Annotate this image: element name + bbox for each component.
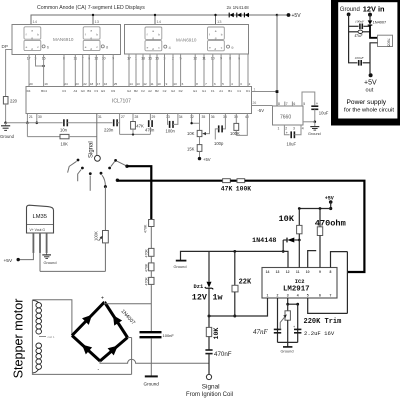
wire: rail B to signal line — [69, 136, 97, 138]
svg-text:100K: 100K — [94, 231, 99, 241]
wire: +5V stub — [330, 202, 332, 209]
ICL top pin numbers — [29, 82, 250, 86]
svg-text:14: 14 — [266, 270, 270, 274]
wire: integrator bottom rail — [120, 133, 151, 135]
svg-text:2: 2 — [277, 294, 279, 298]
svg-text:D2: D2 — [179, 89, 183, 93]
svg-text:Ground: Ground — [144, 382, 160, 387]
svg-text:From Ignition Coil: From Ignition Coil — [186, 392, 233, 398]
svg-text:Dz1: Dz1 — [194, 284, 204, 290]
node: V+ branch dot — [276, 14, 279, 17]
ICL top pin segment labels — [27, 89, 251, 93]
node: +5V terminal — [287, 13, 291, 17]
digit1 decimal point marker 6 — [42, 45, 50, 50]
svg-text:Power supply: Power supply — [347, 99, 387, 106]
svg-text:100K: 100K — [236, 186, 252, 193]
svg-text:10K: 10K — [279, 214, 295, 224]
wire: 220n to pin27 drop — [117, 122, 120, 124]
node: pin30 rail dot — [36, 122, 39, 125]
wire: 22K top — [234, 251, 236, 285]
wire: thick battery-volts line to 47K — [117, 180, 222, 182]
svg-text:4: 4 — [302, 126, 304, 130]
wire: pin5 jog to tach line — [308, 298, 348, 313]
svg-text:+: + — [101, 296, 104, 302]
svg-text:100nF: 100nF — [355, 20, 365, 24]
node: supply ground terminal — [347, 13, 351, 17]
wire: 22K bottom to signal rail — [234, 292, 236, 316]
svg-text:12: 12 — [143, 82, 147, 86]
svg-text:470K: 470K — [145, 249, 149, 258]
node: pin21 rail dot — [26, 122, 29, 125]
svg-text:28: 28 — [135, 115, 139, 119]
svg-text:coil 1: coil 1 — [48, 335, 55, 339]
svg-text:10: 10 — [102, 56, 106, 60]
diode D1 on bus — [229, 13, 234, 18]
svg-text:B3: B3 — [87, 89, 91, 93]
wire: 15K to +5V — [199, 151, 201, 157]
digit3 decimal point marker 4 — [164, 45, 172, 50]
svg-text:G1: G1 — [202, 89, 206, 93]
svg-text:7: 7 — [286, 102, 288, 106]
svg-text:10: 10 — [157, 82, 161, 86]
wire: coil top to bridge AC1 — [32, 300, 72, 336]
svg-text:18: 18 — [90, 82, 94, 86]
wire: 470ohm to pin9 — [319, 236, 321, 268]
node: bus junction dot 2 — [154, 14, 156, 16]
svg-text:27: 27 — [121, 115, 125, 119]
wire: chain gaps — [150, 256, 152, 277]
ICL bottom pin numbers — [29, 115, 249, 119]
resistor 10K (pullup) — [298, 209, 300, 226]
svg-text:10K: 10K — [213, 328, 220, 340]
node: diode junction — [298, 239, 301, 242]
wire: analog ground rail A — [6, 122, 63, 124]
wire: display2 anode pin 13 riser — [215, 15, 217, 25]
input terminal circle — [206, 374, 211, 379]
svg-text:B1: B1 — [228, 89, 232, 93]
ground symbol (LM35) — [42, 255, 51, 259]
wire: ICL pin27 vertical — [119, 114, 121, 135]
wires: module1 segment lines to ICL — [64, 55, 113, 87]
power supply frame — [331, 0, 400, 126]
svg-text:36: 36 — [211, 115, 215, 119]
svg-text:3: 3 — [287, 294, 289, 298]
diode 1N4148 — [286, 238, 288, 243]
svg-text:A3: A3 — [73, 89, 77, 93]
wire: LM35 V+ leg to +5V — [32, 233, 34, 253]
wire: coil bottom to lower rail — [32, 373, 131, 376]
svg-text:22K: 22K — [239, 279, 252, 287]
resistor 15K — [199, 137, 201, 145]
svg-text:23: 23 — [75, 82, 79, 86]
svg-text:2: 2 — [285, 126, 287, 130]
wire: display1 anode pin 13 riser — [92, 15, 94, 25]
regulator 7805 — [378, 35, 393, 46]
capacitor 10uF (pump) — [291, 131, 294, 138]
svg-text:F2: F2 — [141, 89, 145, 93]
trimpot wiper arrow — [280, 316, 285, 322]
svg-text:5: 5 — [307, 294, 309, 298]
diode 1N4007 (supply) — [369, 15, 371, 21]
wire: module1 pin3 jog — [36, 55, 44, 67]
resistor 220 — [3, 97, 8, 105]
svg-text:35: 35 — [202, 115, 206, 119]
svg-text:11: 11 — [296, 270, 300, 274]
wire: 12V to regulator — [370, 25, 378, 38]
svg-text:13: 13 — [136, 82, 140, 86]
module2 bottom pin numbers — [127, 56, 240, 60]
svg-text:13: 13 — [217, 19, 222, 24]
svg-text:ICL7107: ICL7107 — [112, 99, 131, 105]
resistor 22K — [232, 285, 238, 292]
sensor LM35 package — [27, 205, 54, 233]
wire: 7660 to ground node — [303, 121, 315, 123]
svg-text:220: 220 — [10, 99, 18, 104]
svg-text:25: 25 — [114, 82, 118, 86]
svg-text:12V: 12V — [192, 293, 208, 303]
svg-text:Stepper motor: Stepper motor — [12, 299, 26, 379]
wire: pin10 jog to pin9 line — [308, 251, 317, 268]
ground symbol (7660) — [310, 122, 319, 130]
wire: chain down to filter cap — [150, 284, 152, 331]
digit4 decimal point marker 9 — [227, 45, 235, 50]
wire: ICL pin31 signal line — [96, 114, 98, 156]
selector contact D (to 100K pot) — [100, 172, 107, 188]
capacitor 100p — [222, 114, 225, 129]
svg-text:30: 30 — [38, 115, 42, 119]
wire: 470nF to input terminal — [208, 354, 210, 375]
capacitor 220n — [114, 119, 117, 126]
svg-text:2.2uF 16V: 2.2uF 16V — [304, 330, 335, 337]
svg-text:D4: D4 — [27, 89, 31, 93]
resistor 470K fourth — [149, 277, 154, 284]
svg-text:8: 8 — [330, 270, 332, 274]
node: 22K junction — [233, 250, 236, 253]
selector contact A — [68, 159, 80, 173]
wire: ICL pin26 -5V stub — [252, 105, 273, 107]
svg-text:12: 12 — [286, 270, 290, 274]
svg-text:14: 14 — [129, 82, 133, 86]
svg-text:IC2: IC2 — [295, 279, 305, 285]
svg-text:1: 1 — [254, 88, 256, 92]
svg-text:47uF: 47uF — [355, 34, 364, 38]
wire: ICL pin21 stub — [26, 114, 28, 123]
svg-text:470K: 470K — [145, 263, 149, 272]
svg-text:1N4007: 1N4007 — [373, 20, 387, 25]
svg-text:22: 22 — [83, 82, 87, 86]
svg-text:MAN6910: MAN6910 — [53, 37, 74, 42]
svg-text:24: 24 — [64, 82, 68, 86]
svg-text:Signal: Signal — [202, 383, 220, 390]
wire: bridge AC2 drop — [128, 337, 132, 339]
selector contact C — [89, 172, 92, 191]
svg-text:Ground: Ground — [281, 349, 294, 354]
svg-text:Ground: Ground — [0, 134, 15, 139]
wire: module1 pin15 to ICL pin19 — [43, 55, 45, 87]
node: pin3/15 junction — [42, 65, 44, 67]
ground symbol left — [1, 123, 10, 131]
svg-text:+5V: +5V — [325, 195, 334, 201]
svg-text:E1: E1 — [193, 89, 197, 93]
svg-text:12V in: 12V in — [363, 5, 385, 14]
svg-text:for the whole circuit: for the whole circuit — [344, 108, 394, 114]
LM2917 top pin numbers — [266, 270, 332, 274]
capacitor 100nF (filter) — [140, 332, 162, 337]
svg-text:A1: A1 — [219, 89, 223, 93]
wire: link 47K-100K — [230, 180, 237, 182]
svg-text:Ground: Ground — [44, 260, 57, 265]
svg-text:1N4148: 1N4148 — [252, 237, 276, 245]
svg-text:G2: G2 — [127, 89, 131, 93]
7-segment digit 1 module1 — [24, 27, 41, 51]
svg-text:13: 13 — [95, 19, 100, 24]
wire: V+ vertical to ICL pin1 / 7660 — [276, 15, 278, 106]
svg-text:7: 7 — [330, 294, 332, 298]
node: supply 12V terminal — [368, 13, 372, 17]
svg-text:11: 11 — [150, 82, 153, 86]
svg-text:B2: B2 — [155, 89, 159, 93]
svg-text:14: 14 — [157, 19, 162, 24]
svg-text:1: 1 — [278, 126, 280, 130]
wire: pump cap to 7660 pin4 — [294, 125, 301, 135]
diode D2 on bus — [237, 13, 242, 18]
capacitor 47uF — [349, 31, 359, 33]
inductor coil lower — [32, 343, 41, 373]
ground reference rail — [181, 251, 289, 267]
node: pin3 dot — [286, 303, 289, 306]
wire: bus to +5V terminal — [277, 14, 288, 16]
wire: rail A continue to 220n — [67, 122, 112, 124]
svg-text:B2: B2 — [134, 89, 138, 93]
node: +5V terminal dot — [329, 200, 333, 204]
resistor 47K (integrator) — [132, 114, 134, 122]
node: bus junction dot 3 — [214, 14, 216, 16]
svg-text:C3: C3 — [62, 89, 66, 93]
svg-text:G3: G3 — [81, 89, 85, 93]
LM2917 bottom pin numbers — [267, 294, 332, 298]
node: +5V terminal (ref divider) — [198, 157, 201, 160]
wire: zener node down to 10K — [208, 316, 210, 327]
svg-text:+5V: +5V — [364, 80, 377, 87]
node: +5V out terminal — [369, 73, 373, 77]
trimpot 220K — [287, 304, 289, 311]
wire: regulator output +5V — [370, 43, 378, 74]
svg-text:47K: 47K — [136, 124, 144, 129]
svg-text:+5V: +5V — [4, 258, 13, 264]
resistor chain 470K x4 — [149, 220, 154, 227]
svg-text:Common Anode (CA) 7-segment L: Common Anode (CA) 7-segment LED Displays — [37, 5, 145, 11]
svg-text:9: 9 — [319, 270, 321, 274]
digit2 decimal point marker 8 — [101, 45, 109, 50]
svg-text:G2: G2 — [171, 89, 175, 93]
selector contact B — [78, 167, 84, 182]
node: pin32 join dot — [190, 122, 192, 124]
capacitor 470nF — [205, 350, 212, 354]
wire: ground rail bottom — [278, 341, 298, 343]
wire: pin3-pin4 link — [288, 303, 298, 305]
wire: LM35 G leg — [46, 233, 48, 253]
svg-text:10n: 10n — [60, 128, 68, 133]
svg-text:1: 1 — [267, 294, 269, 298]
wire: 220 to ground rail — [5, 104, 7, 123]
svg-text:D3: D3 — [111, 89, 115, 93]
wire: supply ground bus — [349, 14, 358, 62]
wire: pot to Vout rail — [104, 243, 106, 272]
wire: 10K to diode node — [298, 234, 300, 240]
wire: tach junction vertical — [346, 252, 348, 314]
svg-text:V+ Vout G: V+ Vout G — [30, 228, 46, 232]
bridge diode R->T arrow — [109, 313, 122, 326]
svg-text:5: 5 — [303, 102, 305, 106]
svg-text:A2: A2 — [148, 89, 152, 93]
svg-text:1w: 1w — [213, 293, 223, 303]
svg-text:14: 14 — [33, 19, 38, 24]
wire: thick line to LM2917 tach output — [245, 181, 365, 272]
node: signal rail dot 22K — [233, 315, 236, 318]
wire: ICL pin1 V+ stub — [252, 91, 278, 93]
svg-text:26: 26 — [253, 101, 257, 105]
svg-text:E3: E3 — [101, 89, 105, 93]
svg-text:F1: F1 — [211, 89, 215, 93]
wire: ICL pin32 stub — [192, 114, 200, 124]
svg-text:Ground: Ground — [308, 132, 321, 136]
zener diode Dz1 — [208, 251, 210, 281]
svg-text:-5V: -5V — [258, 108, 265, 113]
wire: pin8 jog to tach line — [331, 252, 348, 268]
resistor 100K (divider) — [237, 179, 245, 183]
node: +5V rail dot — [329, 207, 332, 210]
svg-text:10K: 10K — [61, 141, 69, 146]
wire: Vout rail to 100K pot — [40, 270, 105, 272]
inductor coil upper — [32, 301, 41, 335]
capacitor 100nF (input) — [360, 24, 362, 30]
svg-text:out: out — [366, 88, 374, 94]
node: pin4 dot — [296, 303, 299, 306]
selector contact E (to RPM line) — [108, 159, 129, 169]
7660 top pin numbers — [278, 102, 305, 106]
svg-text:Ground: Ground — [174, 264, 187, 269]
wire: thick to 470K divider chain — [127, 166, 151, 219]
wire: ICL pin33 stub — [167, 114, 170, 125]
svg-text:2x 1N4148: 2x 1N4148 — [227, 5, 250, 10]
svg-text:8: 8 — [278, 102, 280, 106]
wire: diode cathode to ground rail — [282, 240, 284, 251]
diode D3 on bus — [244, 13, 249, 18]
wire: LM2917 pin2 to ground rail — [277, 298, 279, 342]
svg-text:100nF: 100nF — [163, 333, 175, 338]
svg-text:3: 3 — [293, 126, 295, 130]
svg-text:20: 20 — [29, 82, 33, 86]
wire: pot line from selector contact D — [104, 187, 106, 231]
node: ground rail dot — [282, 250, 285, 253]
capacitor 10uF (right) — [311, 106, 318, 109]
wire: 7660 pin5 to -5V cap — [302, 92, 315, 106]
ground symbol (rail) — [176, 260, 187, 262]
capacitor 2.2uF — [294, 329, 301, 332]
wire: ICL pin34 stub — [173, 114, 178, 125]
IC U5 LM2917 box — [262, 268, 337, 299]
svg-text:16: 16 — [104, 82, 108, 86]
display module U4 MAN6910 box — [125, 25, 249, 55]
wire: display2 anode pin 14 riser — [154, 15, 156, 25]
svg-text:LM35: LM35 — [33, 214, 48, 220]
resistor 10K (signal) — [206, 327, 211, 336]
svg-text:220n: 220n — [104, 127, 114, 132]
wire: 7660 pin2 to pump cap — [284, 125, 289, 135]
svg-text:10uF: 10uF — [287, 141, 297, 146]
ground symbol (filter) — [145, 375, 158, 377]
svg-text:MAN6910: MAN6910 — [176, 38, 197, 43]
svg-text:470ohm: 470ohm — [315, 219, 346, 229]
svg-text:10: 10 — [306, 270, 310, 274]
wire: LM35 Vout leg — [39, 233, 41, 253]
7660 bottom pin numbers — [278, 126, 304, 130]
node: contact G dot — [116, 179, 119, 182]
resistor 47K (divider) — [223, 179, 231, 183]
coil centre tap — [39, 336, 46, 338]
IC U1 ICL7107 box — [26, 87, 252, 114]
svg-text:+5V: +5V — [292, 13, 302, 19]
bridge diode B->R arrow — [108, 342, 121, 355]
node: +5V terminal (LM35) — [17, 258, 20, 261]
resistor 470ohm — [319, 209, 321, 227]
svg-text:LM2917: LM2917 — [283, 286, 310, 294]
svg-text:10K: 10K — [187, 131, 195, 136]
wire: bridge + output to RC node — [104, 302, 106, 304]
node: -5V ground dot — [314, 121, 317, 124]
svg-text:C1: C1 — [237, 89, 241, 93]
svg-text:7660: 7660 — [280, 114, 291, 120]
ground symbol (LM2917) — [283, 342, 292, 347]
wire: ICL pin30 stub — [36, 114, 38, 123]
wire: module1 pin17 to ICL pin20 — [28, 55, 30, 87]
svg-text:DP: DP — [2, 44, 8, 49]
svg-text:C2: C2 — [163, 89, 167, 93]
bridge diode B->L arrow — [79, 341, 92, 354]
7-segment digit 2 module1 — [83, 27, 100, 51]
svg-text:470nF: 470nF — [214, 351, 232, 358]
svg-text:34: 34 — [179, 115, 183, 119]
svg-text:4: 4 — [297, 294, 299, 298]
wire: input lo rail B drop — [26, 123, 28, 137]
svg-text:21: 21 — [29, 115, 33, 119]
node: integrator rail dot — [132, 133, 134, 135]
capacitor 10n — [64, 119, 67, 126]
wire: bridge - output with hop — [100, 359, 209, 363]
wire: coil left spine — [31, 300, 33, 373]
svg-text:Ground: Ground — [340, 7, 360, 13]
pot wiper arrow — [99, 237, 102, 240]
svg-text:BC4: BC4 — [41, 89, 47, 93]
wire: chain link — [150, 227, 152, 249]
wire: common anode bus +5V — [31, 15, 277, 25]
wire: signal rail to pin1 — [209, 298, 268, 316]
resistor 10K trimpot (ref) — [199, 114, 201, 131]
svg-text:+5V: +5V — [203, 157, 211, 162]
wire: filter rung 1 — [349, 25, 359, 27]
7-segment digit 1 module2 — [145, 27, 162, 51]
IC U2 7660 box — [273, 106, 304, 125]
svg-text:470n: 470n — [145, 127, 155, 132]
wire: pin4 to 2.2uF — [297, 304, 299, 342]
svg-text:47nF: 47nF — [253, 328, 269, 336]
potentiometer 100K — [103, 231, 109, 243]
selector wiper terminal circle — [95, 155, 101, 161]
svg-text:13: 13 — [173, 82, 177, 86]
svg-text:19: 19 — [44, 82, 48, 86]
bridge diode L->T arrow — [82, 311, 95, 324]
svg-text:F3: F3 — [95, 89, 99, 93]
